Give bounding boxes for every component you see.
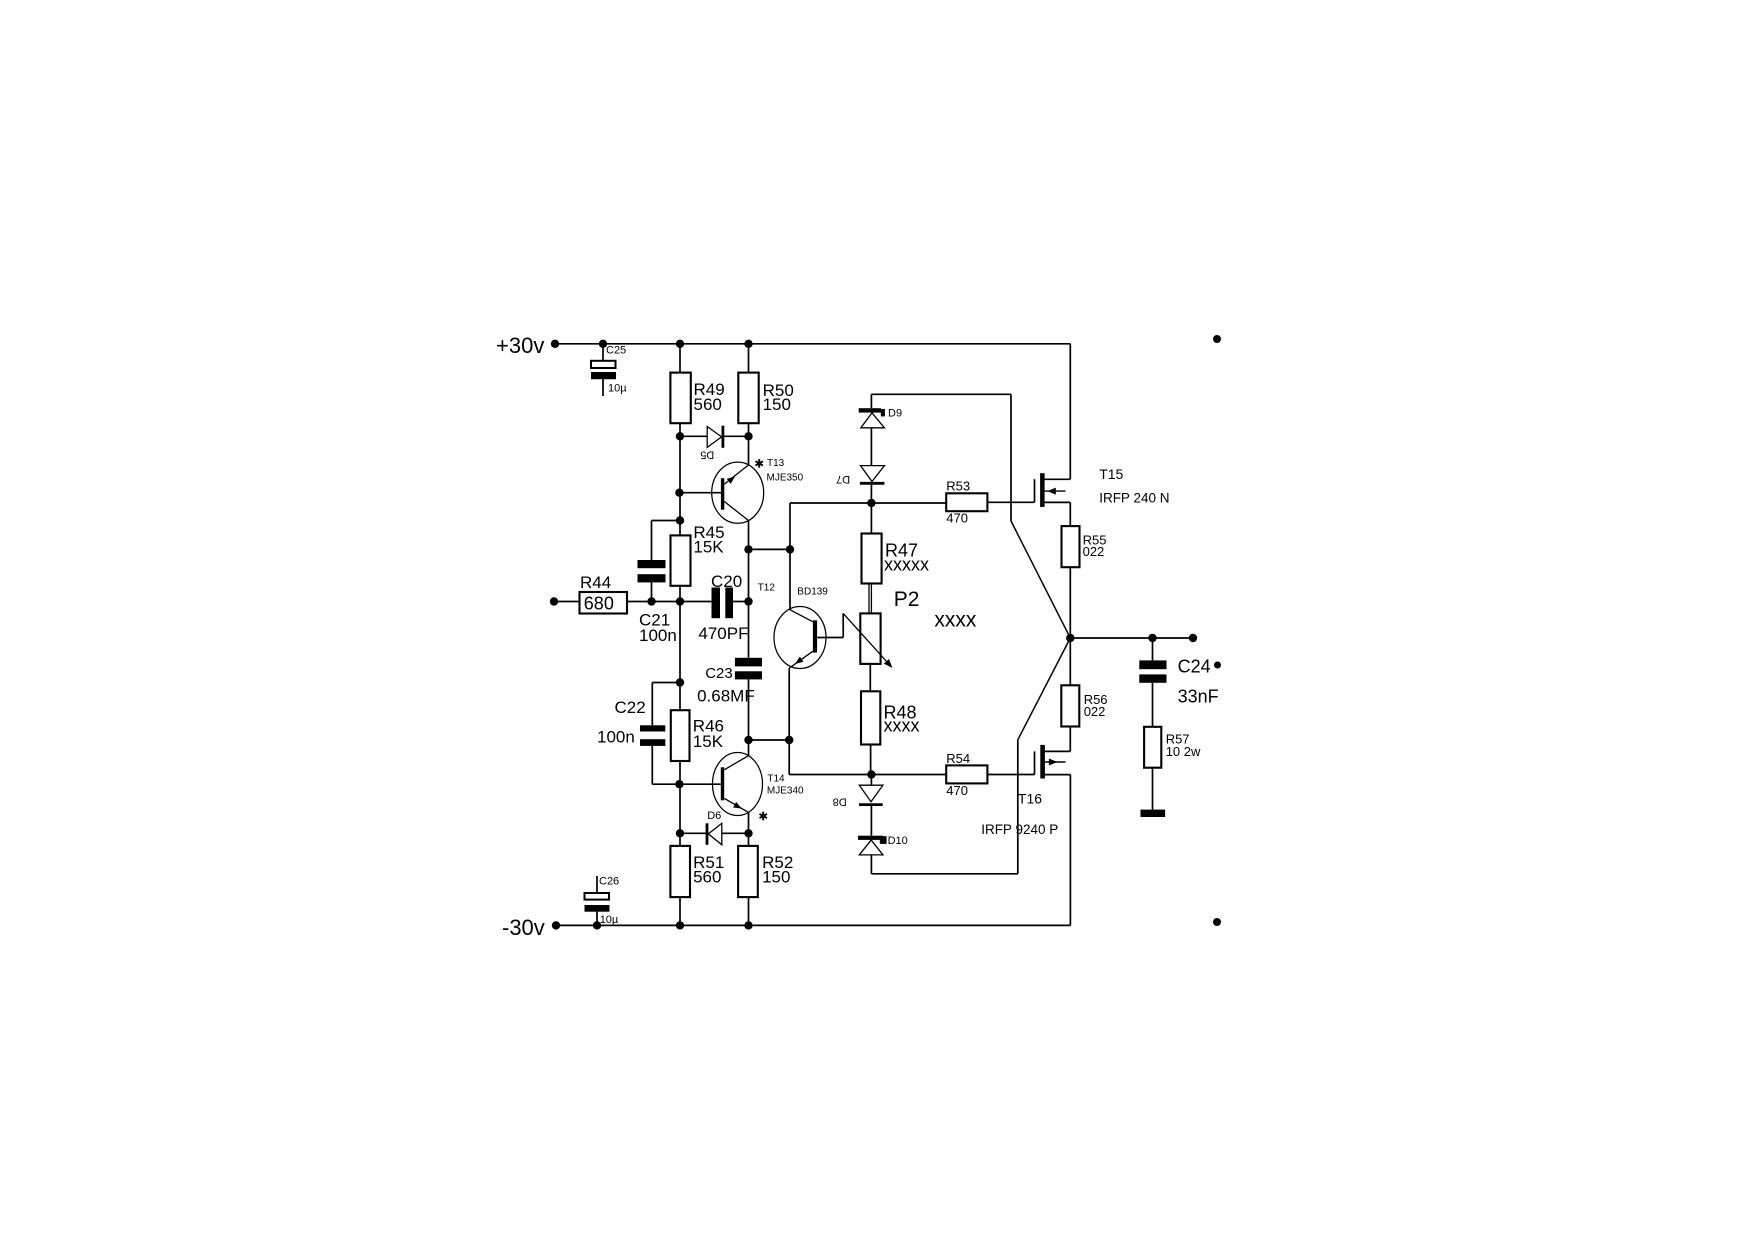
svg-text:150: 150 [762, 868, 790, 887]
svg-text:680: 680 [584, 594, 614, 614]
svg-text:560: 560 [693, 868, 721, 887]
svg-text:D7: D7 [836, 473, 850, 485]
svg-text:10µ: 10µ [608, 383, 627, 395]
svg-text:MJE350: MJE350 [767, 473, 804, 484]
svg-text:33nF: 33nF [1178, 687, 1219, 707]
svg-text:R53: R53 [946, 478, 970, 493]
svg-text:022: 022 [1084, 704, 1106, 719]
svg-text:470: 470 [946, 511, 968, 526]
svg-text:D5: D5 [700, 449, 714, 461]
svg-text:150: 150 [763, 395, 791, 414]
svg-text:022: 022 [1083, 544, 1105, 559]
svg-text:T13: T13 [767, 458, 785, 469]
svg-text:D6: D6 [707, 810, 721, 822]
svg-text:C25: C25 [606, 345, 626, 357]
svg-text:C26: C26 [599, 876, 619, 888]
svg-text:560: 560 [694, 395, 722, 414]
svg-text:C23: C23 [705, 665, 733, 682]
svg-text:470PF: 470PF [698, 624, 748, 643]
svg-text:C24: C24 [1178, 656, 1211, 676]
svg-text:T12: T12 [758, 583, 776, 594]
svg-text:470: 470 [946, 783, 968, 798]
svg-text:-30v: -30v [502, 915, 545, 940]
svg-text:P2: P2 [894, 588, 920, 611]
svg-text:xxxxx: xxxxx [884, 554, 929, 574]
svg-text:T16: T16 [1018, 790, 1042, 806]
svg-text:D10: D10 [888, 835, 908, 847]
svg-text:R54: R54 [946, 751, 970, 766]
svg-text:xxxx: xxxx [884, 716, 920, 736]
svg-text:+30v: +30v [496, 333, 544, 358]
svg-text:T15: T15 [1099, 466, 1123, 482]
svg-text:100n: 100n [597, 728, 635, 747]
svg-text:C20: C20 [711, 572, 742, 591]
svg-text:C22: C22 [615, 698, 646, 717]
svg-text:xxxx: xxxx [934, 608, 977, 631]
svg-text:10 2w: 10 2w [1166, 744, 1201, 759]
svg-text:D9: D9 [888, 407, 902, 419]
svg-text:BD139: BD139 [797, 587, 828, 598]
svg-text:MJE340: MJE340 [767, 786, 804, 797]
svg-text:D8: D8 [833, 796, 847, 808]
svg-text:0.68MF: 0.68MF [697, 687, 755, 706]
svg-text:R44: R44 [580, 573, 611, 592]
svg-text:15K: 15K [693, 537, 724, 556]
svg-text:100n: 100n [639, 626, 677, 645]
svg-text:T14: T14 [767, 773, 785, 784]
svg-text:15K: 15K [693, 732, 724, 751]
svg-text:10µ: 10µ [600, 914, 619, 926]
svg-text:IRFP 9240 P: IRFP 9240 P [981, 822, 1058, 837]
svg-text:IRFP 240 N: IRFP 240 N [1099, 491, 1169, 506]
